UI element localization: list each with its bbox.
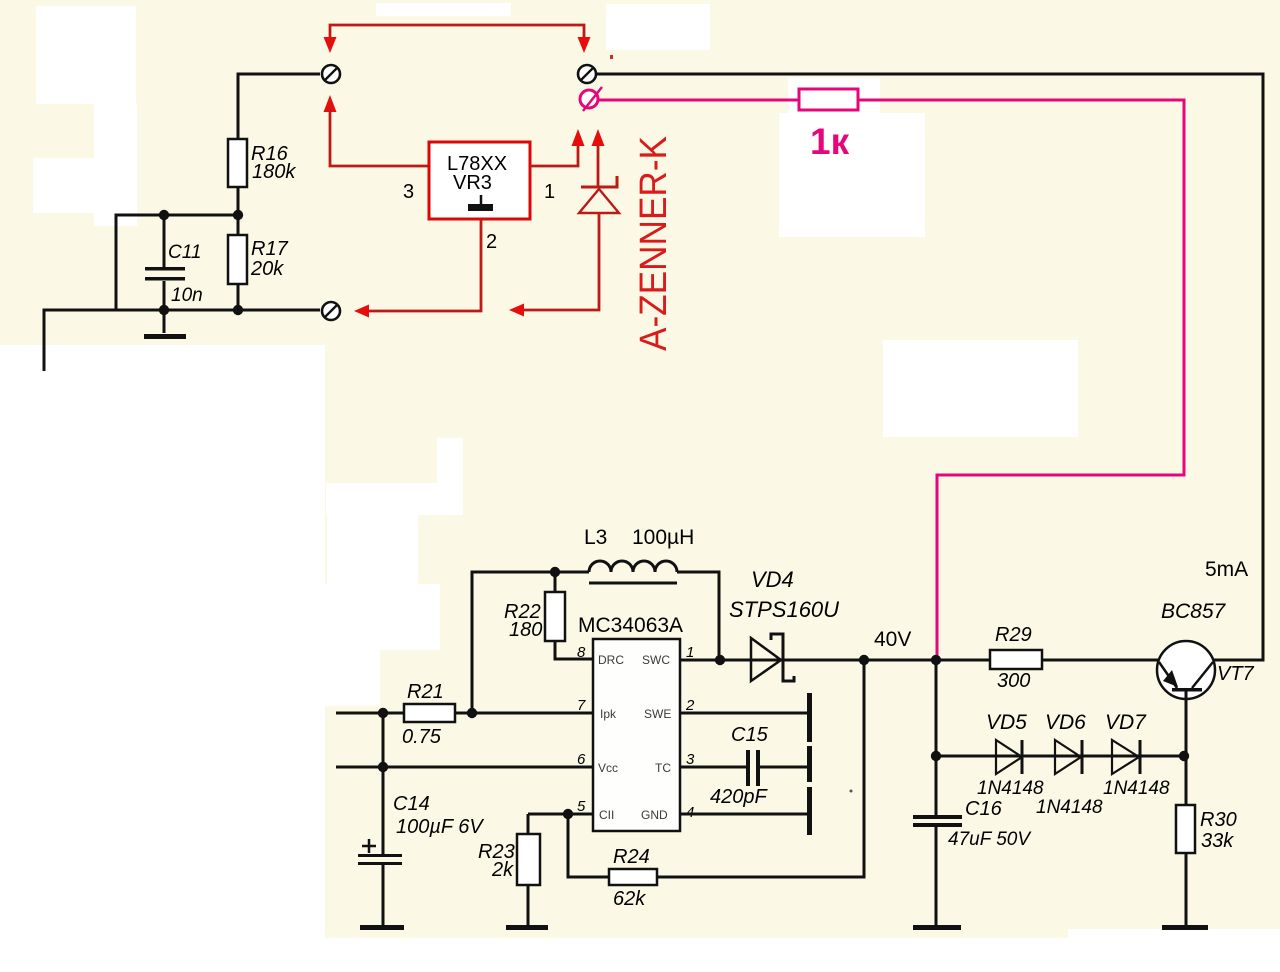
svg-text:47uF 50V: 47uF 50V xyxy=(948,829,1032,850)
wire riser to inductor xyxy=(472,572,589,713)
wire pin4 GND xyxy=(680,813,808,816)
resistor R17 xyxy=(228,235,247,284)
junction dots xyxy=(378,567,1189,819)
wire C16 to ground xyxy=(935,827,938,927)
svg-text:7: 7 xyxy=(577,697,586,714)
svg-text:3: 3 xyxy=(403,181,414,203)
diode VD7 xyxy=(1112,740,1139,774)
node R21/C14 xyxy=(378,708,388,718)
zener triangle xyxy=(579,189,619,213)
resistor R16 xyxy=(228,139,247,187)
wire node row upper xyxy=(116,215,238,310)
wire L3 right down to pin1 line xyxy=(677,572,719,660)
wire VT7 collector to R30 xyxy=(1185,756,1188,805)
terminal T4 magenta xyxy=(580,87,602,111)
terminal T2 xyxy=(322,302,340,320)
resistor R22 xyxy=(545,592,565,641)
svg-text:1N4148: 1N4148 xyxy=(1103,778,1170,799)
wire R17 top xyxy=(237,215,240,235)
wire T1 to R16 xyxy=(238,74,320,139)
wire pin3 xyxy=(330,110,429,166)
svg-text:5mA: 5mA xyxy=(1205,558,1248,581)
svg-text:TC: TC xyxy=(655,761,671,775)
wire pin1 xyxy=(530,146,578,166)
red arrow up pin1 xyxy=(572,129,585,146)
svg-text:10n: 10n xyxy=(171,285,203,306)
svg-text:SWE: SWE xyxy=(644,707,671,721)
capacitor C16 xyxy=(935,756,938,816)
red arrow down to T1 xyxy=(324,37,337,53)
svg-text:1N4148: 1N4148 xyxy=(977,778,1044,799)
wire pin5 CII xyxy=(528,813,593,816)
svg-text:VD6: VD6 xyxy=(1045,711,1086,734)
wire R23 to ground xyxy=(527,885,530,927)
terminal T1 xyxy=(322,65,340,83)
shield bar segments xyxy=(807,693,812,742)
svg-text:R29: R29 xyxy=(995,624,1032,646)
svg-text:STPS160U: STPS160U xyxy=(729,597,839,622)
node L3/R22 xyxy=(550,567,560,577)
svg-text:VD7: VD7 xyxy=(1105,711,1147,734)
ground C11 xyxy=(144,334,186,339)
red arrow up zener xyxy=(592,129,605,146)
pin names xyxy=(598,653,671,822)
svg-text:R17: R17 xyxy=(251,238,289,260)
VR3 ground tab xyxy=(480,195,483,205)
svg-text:VR3: VR3 xyxy=(453,172,492,194)
svg-text:C16: C16 xyxy=(965,798,1003,820)
svg-text:VD5: VD5 xyxy=(986,711,1027,734)
svg-text:62k: 62k xyxy=(613,888,646,910)
svg-text:DRC: DRC xyxy=(598,653,624,667)
ground R23 xyxy=(506,925,548,930)
zener anode wire xyxy=(524,213,599,310)
resistor R21 xyxy=(404,704,455,722)
svg-text:CII: CII xyxy=(599,808,614,822)
svg-text:GND: GND xyxy=(641,808,668,822)
svg-text:0.75: 0.75 xyxy=(402,726,442,748)
svg-text:2: 2 xyxy=(486,231,497,253)
wire R30 to ground xyxy=(1185,853,1188,927)
svg-text:VT7: VT7 xyxy=(1217,663,1255,685)
node pin1/L3 xyxy=(715,655,725,665)
resistor R24 xyxy=(609,869,657,885)
wire R29 to VT7 xyxy=(1042,659,1159,662)
wire R16 bottom to node xyxy=(237,187,240,215)
svg-text:180: 180 xyxy=(509,619,542,641)
svg-text:C11: C11 xyxy=(168,242,201,263)
svg-text:C15: C15 xyxy=(731,724,769,746)
svg-text:1к: 1к xyxy=(810,121,850,162)
node pin5/R24 xyxy=(563,809,573,819)
wire R17 bottom xyxy=(237,284,240,310)
svg-text:Ipk: Ipk xyxy=(600,707,617,721)
node Vcc/C14 xyxy=(378,762,388,772)
red top loop wire xyxy=(330,25,584,39)
wire diode row xyxy=(936,755,1183,758)
svg-text:420pF: 420pF xyxy=(710,786,768,808)
node VD7/VT7 xyxy=(1179,751,1189,761)
red speck artifact xyxy=(610,55,613,59)
diode VD6 xyxy=(1055,740,1081,774)
svg-text:R21: R21 xyxy=(407,681,444,703)
wire C14 riser xyxy=(382,713,385,854)
red arrow down to T3 xyxy=(578,37,591,53)
wire pin6 Vcc xyxy=(336,766,593,769)
wire pin2 down xyxy=(369,219,481,311)
ground R30 xyxy=(1162,925,1208,930)
transistor Q VT7 BC857 xyxy=(1157,641,1215,756)
svg-text:C14: C14 xyxy=(393,793,430,815)
red arrow left (pin2 to T2) xyxy=(354,305,369,318)
capacitor C15 xyxy=(746,750,750,786)
svg-text:20k: 20k xyxy=(250,258,284,280)
svg-text:180k: 180k xyxy=(252,161,296,183)
wire R22 bottom to pin8 xyxy=(555,641,593,659)
svg-text:3: 3 xyxy=(686,751,695,768)
IC U1 MC34063A box xyxy=(593,639,680,831)
svg-text:100µF 6V: 100µF 6V xyxy=(396,816,484,838)
node dots top-left xyxy=(159,210,169,220)
zener diode VD cathode wire xyxy=(597,146,600,187)
diode VD4 STPS160U xyxy=(751,638,781,681)
svg-text:40V: 40V xyxy=(874,628,911,651)
capacitor C11 leads xyxy=(163,215,166,333)
wire R23 riser xyxy=(527,814,530,834)
wire R21 to pin7 xyxy=(455,712,593,715)
red arrow up from pin3 xyxy=(324,95,337,112)
svg-text:1N4148: 1N4148 xyxy=(1036,797,1103,818)
svg-text:33k: 33k xyxy=(1201,830,1234,852)
wire pin5 to R24 xyxy=(568,814,609,877)
svg-text:100µH: 100µH xyxy=(632,526,694,549)
wire pin2 SWE xyxy=(680,712,808,715)
svg-text:BC857: BC857 xyxy=(1161,600,1227,623)
svg-text:L3: L3 xyxy=(584,526,607,549)
svg-text:R24: R24 xyxy=(613,846,650,868)
svg-text:A-ZENNER-K: A-ZENNER-K xyxy=(633,136,675,351)
terminal T3 xyxy=(578,65,596,83)
svg-text:2: 2 xyxy=(685,697,695,714)
regulator U VR3 box xyxy=(429,142,530,219)
C14 plus sign xyxy=(362,839,376,853)
resistor 1k pink xyxy=(799,89,858,110)
svg-text:VD4: VD4 xyxy=(751,567,794,592)
svg-text:300: 300 xyxy=(997,670,1030,692)
wire R22 top xyxy=(554,572,557,592)
wire T3 long right and down to VT7 xyxy=(597,74,1263,660)
wire left stub xyxy=(44,310,116,371)
svg-text:8: 8 xyxy=(577,644,586,661)
wire R24 to 40V node xyxy=(657,660,864,877)
capacitor C14 xyxy=(358,854,402,857)
wire pin7 left xyxy=(336,712,404,715)
diode VD5 xyxy=(996,740,1022,774)
node riser/pin7 xyxy=(467,708,477,718)
node C16/VD5 xyxy=(931,751,941,761)
ground C14 xyxy=(360,925,404,930)
node 40V/R24 xyxy=(859,655,869,665)
wire pin3 TC to C15 xyxy=(680,766,808,769)
zener bar xyxy=(581,176,617,187)
svg-text:R30: R30 xyxy=(1200,809,1237,831)
resistor R29 xyxy=(990,650,1042,669)
pink wire 1k to node 40V xyxy=(858,100,1184,658)
svg-text:1: 1 xyxy=(686,644,694,661)
red arrow left (zener to T2) xyxy=(509,304,524,317)
inductor L3 xyxy=(589,561,677,572)
capacitor C11 plates xyxy=(145,267,185,271)
wire bottom row to T2 xyxy=(116,309,320,312)
svg-text:2k: 2k xyxy=(491,859,514,881)
node 40V/pink xyxy=(931,655,941,665)
wire C14 to ground xyxy=(382,865,385,927)
svg-text:1: 1 xyxy=(544,181,555,203)
svg-text:5: 5 xyxy=(577,798,586,815)
resistor R23 xyxy=(517,834,540,885)
pin numbers xyxy=(577,644,695,821)
svg-text:MC34063A: MC34063A xyxy=(578,614,683,637)
wire node to C16/diodes xyxy=(935,660,938,756)
svg-text:SWC: SWC xyxy=(642,653,670,667)
wire pin1 SWC to VD4 and node xyxy=(680,659,990,662)
stray dot xyxy=(850,790,853,793)
pink wire T4 to 1k xyxy=(598,99,799,102)
svg-text:6: 6 xyxy=(577,751,586,768)
svg-text:Vcc: Vcc xyxy=(598,761,618,775)
